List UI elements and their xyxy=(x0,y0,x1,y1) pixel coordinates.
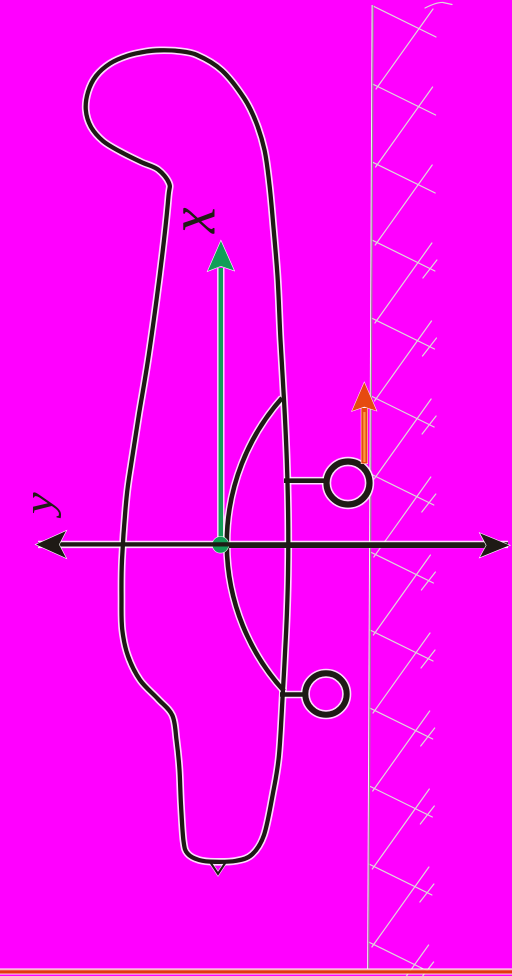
weight vector shaft xyxy=(221,543,486,548)
axle link wheel 2 xyxy=(280,692,306,697)
wall hatching xyxy=(369,2,452,976)
body outline of vehicle xyxy=(86,50,289,862)
axle link wheel 1 xyxy=(284,478,327,483)
svg-text:y: y xyxy=(16,491,61,518)
ground stripe white xyxy=(0,969,512,970)
wheel W1 xyxy=(327,462,370,505)
y axis line xyxy=(38,542,508,546)
axis over dot xyxy=(212,542,229,546)
wheel arch arc xyxy=(227,398,284,691)
friction force orange arrow xyxy=(352,383,377,464)
ground stripe orange xyxy=(0,970,512,971)
origin dot xyxy=(213,537,229,553)
white halo copies under dark ink xyxy=(38,50,508,874)
green arrowhead xyxy=(208,241,234,271)
ground stripe cream xyxy=(0,973,512,976)
wall line white part xyxy=(368,5,373,969)
contact marker triangle xyxy=(210,862,226,874)
ground stripe red xyxy=(0,971,512,974)
svg-text:x: x xyxy=(154,207,229,234)
wheel W2 xyxy=(305,673,346,714)
weight arrowhead xyxy=(480,533,510,557)
normal force N green arrow shaft xyxy=(219,268,224,541)
hatch top curl xyxy=(425,2,452,8)
wall line gray part xyxy=(369,5,374,969)
y axis arrowhead xyxy=(36,531,66,558)
